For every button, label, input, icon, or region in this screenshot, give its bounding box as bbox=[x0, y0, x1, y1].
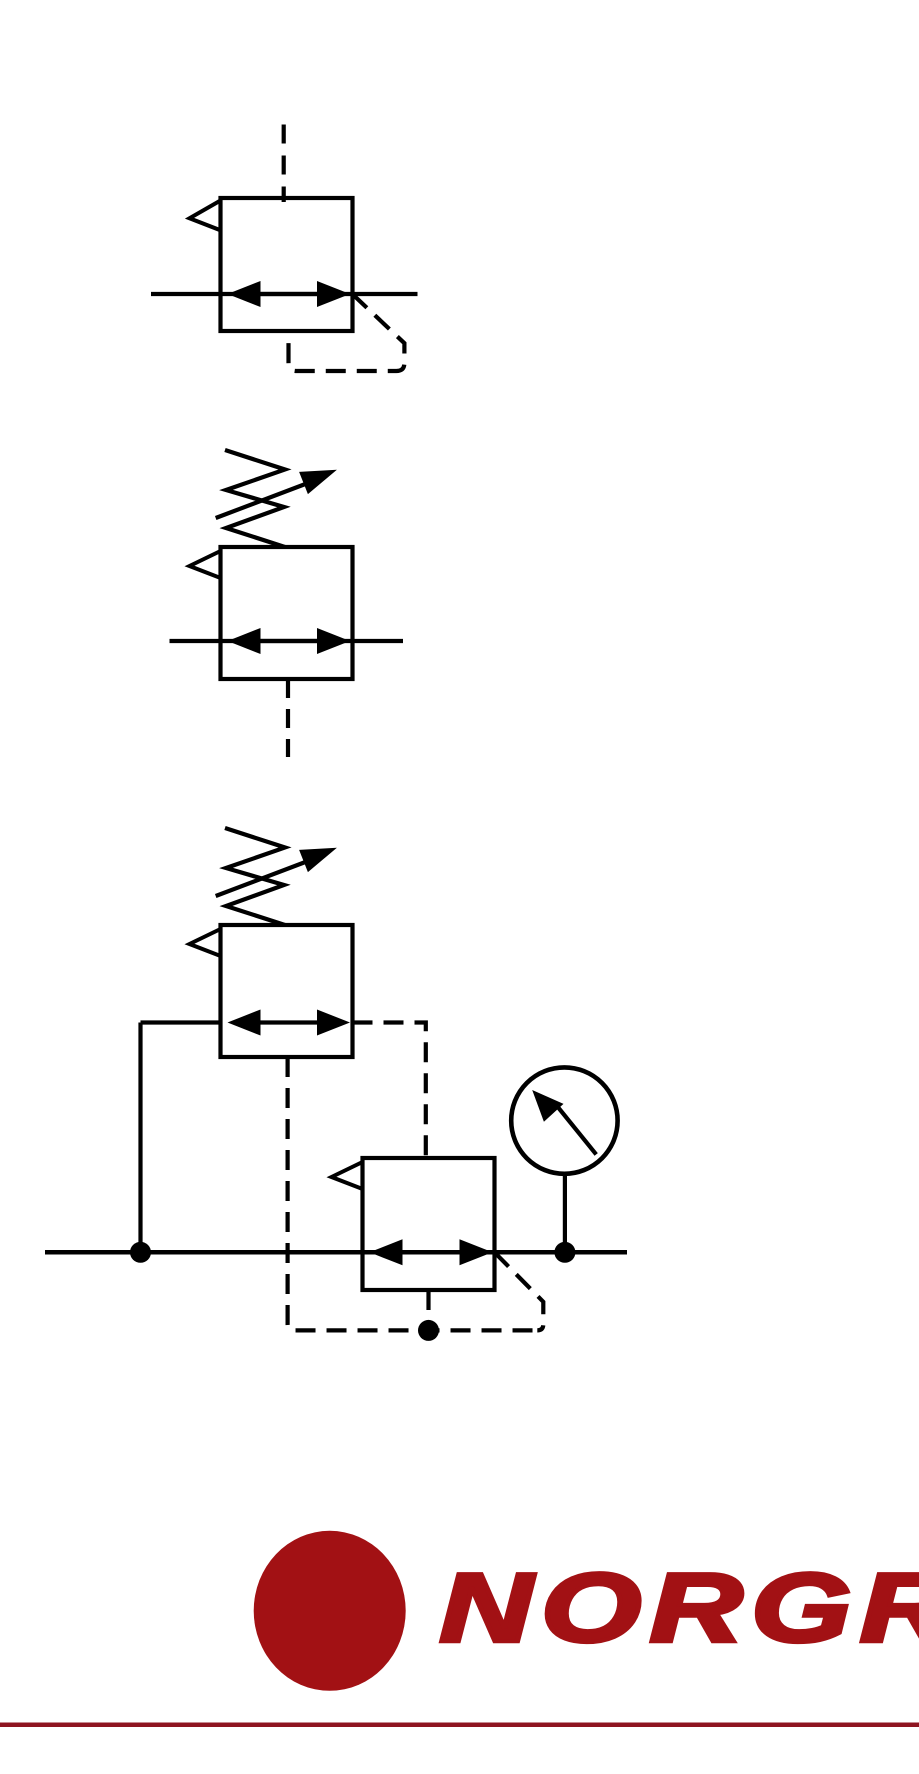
R2 adjustment arrow bbox=[216, 470, 337, 518]
R3 pilot flow line stub (wire) bbox=[141, 1020, 223, 1024]
gauge G1 needle bbox=[532, 1090, 596, 1154]
R2 vent dashed line (bottom) bbox=[286, 679, 290, 757]
R3 pilot vent dashed wire (down and along bottom rail) bbox=[288, 1057, 538, 1330]
R2 adjustment spring bbox=[225, 450, 285, 547]
R3 pilot relief triangle bbox=[190, 929, 221, 956]
R3 main feedback dashed wire (from outlet corner) bbox=[495, 1252, 544, 1330]
R3 pilot double-headed flow arrow bbox=[228, 1010, 351, 1036]
footer red rule line bbox=[0, 1723, 919, 1728]
Norgren logo red disc bbox=[254, 1531, 406, 1691]
main flow line (wire) bbox=[45, 1250, 627, 1255]
R3 pilot adjustment arrow bbox=[216, 848, 337, 896]
node junction dot left bbox=[130, 1242, 151, 1263]
regulator R3 pilot stage (bottom circuit) : body box bbox=[221, 925, 353, 1057]
R1 double-headed flow arrow bbox=[228, 281, 351, 307]
R2 double-headed flow arrow bbox=[228, 628, 351, 654]
node junction dot on vent rail bbox=[418, 1320, 439, 1341]
R3 main vent dashed stub bbox=[426, 1290, 430, 1330]
R3 pilot output dashed wire (to main valve top) bbox=[353, 1023, 426, 1159]
regulator R2 (adjustable, middle symbol) : body box bbox=[221, 547, 353, 679]
gauge G1 stem (wire) bbox=[563, 1176, 567, 1252]
node junction dot right bbox=[554, 1242, 575, 1263]
R3 pilot adjustment spring bbox=[225, 828, 285, 925]
regulator R3 main valve : body box bbox=[363, 1158, 495, 1290]
R1 pilot signal dashed line (top) bbox=[282, 125, 286, 203]
regulator R1 (pilot-operated, top symbol) : body box bbox=[221, 198, 353, 331]
R1 flow line (wire) bbox=[151, 292, 418, 296]
svg-text:NORGREN: NORGREN bbox=[440, 1554, 919, 1662]
R3 pilot supply wire (solid, left) bbox=[138, 1023, 142, 1253]
R1 feedback dashed line (wire) bbox=[289, 294, 405, 371]
R3 main double-headed flow arrow bbox=[370, 1239, 493, 1265]
gauge G1 dial circle bbox=[511, 1067, 617, 1173]
R1 relief triangle bbox=[190, 201, 221, 231]
R2 flow line (wire) bbox=[170, 639, 404, 643]
R3 main relief triangle bbox=[332, 1162, 363, 1189]
R2 relief triangle bbox=[190, 551, 221, 578]
